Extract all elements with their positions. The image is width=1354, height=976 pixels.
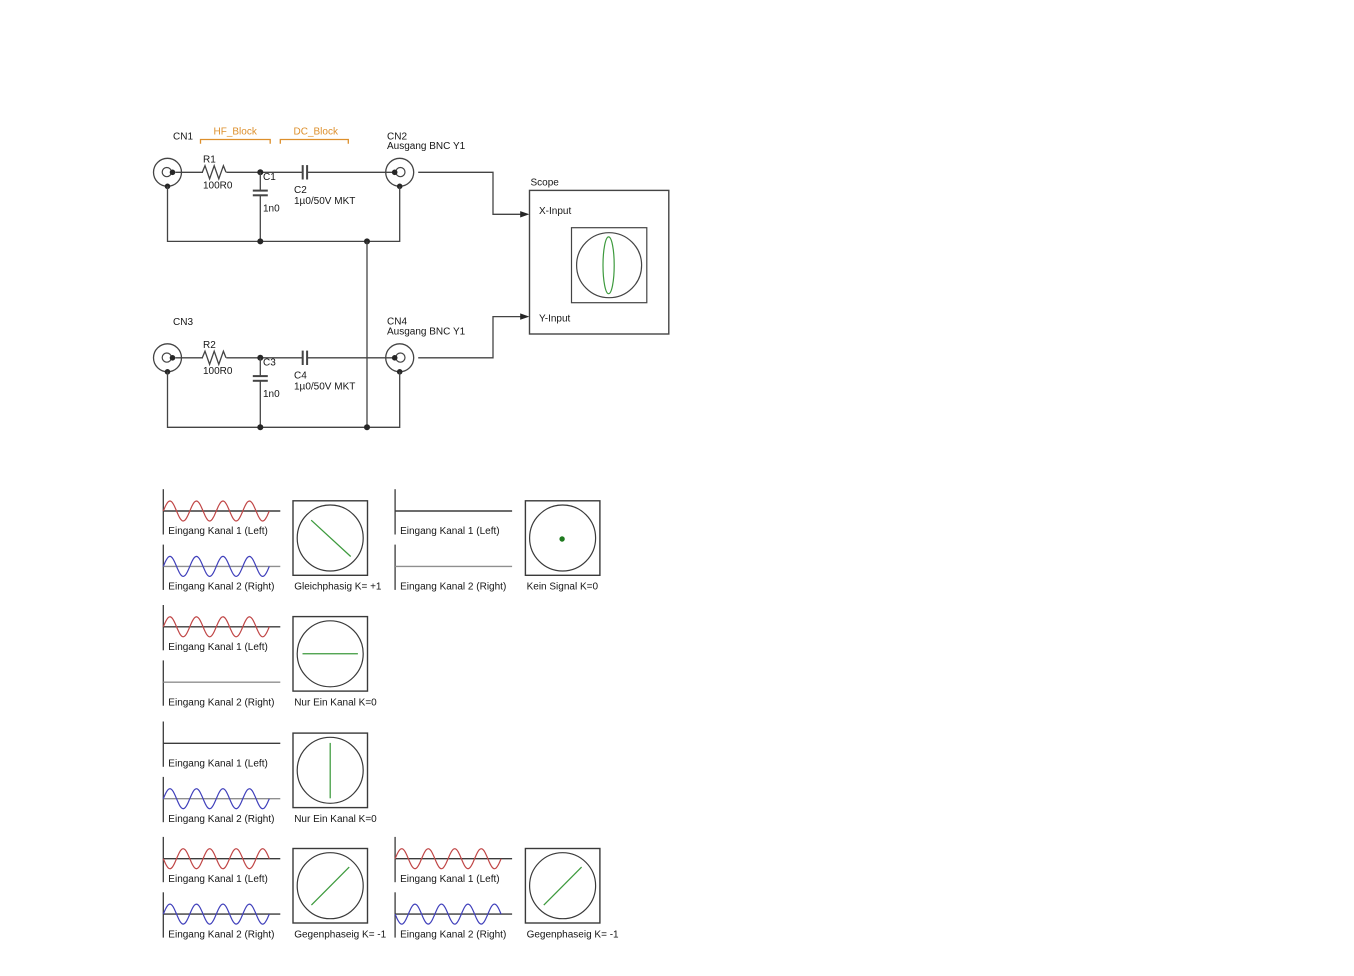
svg-text:CN1: CN1	[173, 132, 193, 143]
svg-text:1µ0/50V MKT: 1µ0/50V MKT	[294, 196, 355, 207]
capacitor C3 (shunt)	[253, 358, 268, 428]
wire CN4 to scope Y-Input	[418, 317, 521, 358]
scope CRT circle group 4	[297, 737, 363, 803]
svg-text:HF_Block: HF_Block	[214, 126, 258, 137]
svg-text:C1: C1	[263, 172, 276, 183]
svg-text:1n0: 1n0	[263, 204, 280, 215]
svg-text:Eingang Kanal 1 (Left): Eingang Kanal 1 (Left)	[168, 526, 268, 537]
svg-text:Eingang Kanal 2 (Right): Eingang Kanal 2 (Right)	[168, 697, 274, 708]
scope screen square group 1	[293, 501, 368, 576]
svg-text:Nur Ein Kanal K=0: Nur Ein Kanal K=0	[294, 814, 377, 825]
svg-text:100R0: 100R0	[203, 366, 233, 377]
svg-text:Nur Ein Kanal K=0: Nur Ein Kanal K=0	[294, 698, 377, 709]
wire CN3 pin to R2	[175, 357, 203, 359]
wire sine channel 2 (blue)	[163, 789, 269, 809]
node waveform group 1: channel 2 axis	[163, 545, 280, 590]
svg-text:Scope: Scope	[531, 178, 560, 189]
wire CN2 to scope X-Input	[418, 172, 521, 214]
svg-text:Y-Input: Y-Input	[539, 313, 571, 324]
connector CN3 (BNC)	[154, 344, 182, 375]
svg-text:Eingang Kanal 1 (Left): Eingang Kanal 1 (Left)	[400, 874, 500, 885]
capacitor C1 (shunt)	[253, 172, 268, 241]
trace ellipse on scope	[603, 237, 614, 294]
svg-text:Eingang Kanal 1 (Left): Eingang Kanal 1 (Left)	[168, 759, 268, 770]
node waveform group 4: channel 2 axis	[163, 777, 280, 822]
resistor R1	[202, 166, 226, 179]
bracket HF_Block	[201, 140, 271, 144]
svg-text:Gleichphasig K= +1: Gleichphasig K= +1	[294, 582, 382, 593]
scope CRT circle	[577, 233, 642, 298]
svg-text:DC_Block: DC_Block	[294, 126, 339, 137]
node waveform group 1: channel 1 axis	[163, 489, 280, 534]
svg-text:Eingang Kanal 1 (Left): Eingang Kanal 1 (Left)	[400, 526, 500, 537]
wire C2 to CN2	[307, 171, 392, 173]
node waveform group 5: channel 2 axis	[163, 892, 280, 937]
svg-text:C3: C3	[263, 358, 276, 369]
node waveform group 2: channel 2 axis	[395, 545, 512, 590]
junction upper rail to link wire	[364, 238, 370, 244]
resistor R2	[202, 351, 226, 364]
svg-text:1µ0/50V MKT: 1µ0/50V MKT	[294, 381, 355, 392]
svg-text:R1: R1	[203, 154, 216, 165]
connector CN2 (BNC)	[386, 158, 414, 189]
bracket DC_Block	[280, 140, 348, 144]
wire sine channel 2 (blue)	[395, 904, 501, 924]
scope screen square group 5	[293, 849, 368, 924]
scope screen square group 2	[525, 501, 600, 576]
svg-text:Eingang Kanal 1 (Left): Eingang Kanal 1 (Left)	[168, 874, 268, 885]
junction node C1 top	[257, 169, 263, 175]
capacitor C2 (series)	[303, 165, 307, 179]
arrow into X-Input	[520, 211, 529, 217]
wire R2 to C4	[226, 357, 302, 359]
svg-text:Eingang Kanal 1 (Left): Eingang Kanal 1 (Left)	[168, 642, 268, 653]
scope box U1	[530, 190, 669, 334]
wire CN3 shield ground rail to CN4 shield	[168, 372, 400, 428]
node waveform group 3: channel 2 axis	[163, 660, 280, 705]
scope CRT circle group 6	[530, 853, 596, 919]
svg-text:Ausgang BNC Y1: Ausgang BNC Y1	[387, 327, 466, 338]
scope CRT circle group 2	[530, 505, 596, 571]
node waveform group 3: channel 1 axis	[163, 605, 280, 650]
svg-text:C2: C2	[294, 185, 307, 196]
svg-text:Eingang Kanal 2 (Right): Eingang Kanal 2 (Right)	[400, 582, 506, 593]
wire sine channel 1 (red)	[395, 849, 501, 869]
node waveform group 6: channel 1 axis	[395, 837, 512, 882]
svg-text:100R0: 100R0	[203, 181, 233, 192]
svg-text:X-Input: X-Input	[539, 206, 571, 217]
trace line (in phase display)	[311, 520, 351, 556]
scope screen square group 4	[293, 733, 368, 808]
scope screen square	[572, 228, 647, 303]
svg-text:C4: C4	[294, 371, 307, 382]
node waveform group 2: channel 1 axis	[395, 489, 512, 534]
junction lower rail to link wire	[364, 424, 370, 430]
junction node C3 top	[257, 355, 263, 361]
junction on lower rail below C3	[257, 424, 263, 430]
connector CN4 (BNC)	[386, 344, 414, 375]
scope CRT circle group 5	[297, 853, 363, 919]
node waveform group 5: channel 1 axis	[163, 837, 280, 882]
arrow into Y-Input	[520, 313, 529, 319]
svg-text:Kein Signal K=0: Kein Signal K=0	[527, 582, 599, 593]
wire link between upper and lower rails	[366, 241, 368, 427]
wire CN1 shield ground rail to CN2 shield	[168, 186, 400, 241]
svg-text:1n0: 1n0	[263, 389, 280, 400]
connector CN1 (BNC)	[154, 158, 182, 189]
scope screen square group 3	[293, 617, 368, 692]
svg-text:Eingang Kanal 2 (Right): Eingang Kanal 2 (Right)	[400, 929, 506, 940]
wire sine channel 1 (red)	[163, 849, 269, 869]
trace vertical line	[329, 743, 331, 798]
wire R1 to C2	[226, 171, 302, 173]
svg-text:Gegenphaseig K= -1: Gegenphaseig K= -1	[294, 929, 386, 940]
capacitor C4 (series)	[303, 351, 307, 365]
svg-text:R2: R2	[203, 340, 216, 351]
svg-text:Eingang Kanal 2 (Right): Eingang Kanal 2 (Right)	[168, 582, 274, 593]
svg-text:Eingang Kanal 2 (Right): Eingang Kanal 2 (Right)	[168, 814, 274, 825]
wire sine channel 1 (red)	[163, 501, 269, 521]
wire sine channel 2 (blue)	[163, 556, 269, 576]
trace horizontal line	[303, 653, 358, 655]
junction on upper rail below C1	[257, 238, 263, 244]
wire sine channel 2 (blue)	[163, 904, 269, 924]
svg-text:Gegenphaseig K= -1: Gegenphaseig K= -1	[527, 929, 619, 940]
svg-text:Ausgang BNC Y1: Ausgang BNC Y1	[387, 141, 466, 152]
node waveform group 4: channel 1 axis	[163, 722, 280, 767]
trace dot (no signal)	[559, 536, 564, 541]
scope screen square group 6	[525, 849, 600, 924]
scope CRT circle group 3	[297, 621, 363, 687]
trace line (out of phase display)	[544, 867, 582, 905]
wire sine channel 1 (red)	[163, 617, 269, 637]
svg-text:Eingang Kanal 2 (Right): Eingang Kanal 2 (Right)	[168, 929, 274, 940]
wire CN1 pin to R1	[175, 171, 203, 173]
trace line (out of phase display)	[311, 867, 349, 905]
svg-text:CN3: CN3	[173, 317, 193, 328]
scope CRT circle group 1	[297, 505, 363, 571]
wire C4 to CN4	[307, 357, 392, 359]
node waveform group 6: channel 2 axis	[395, 892, 512, 937]
